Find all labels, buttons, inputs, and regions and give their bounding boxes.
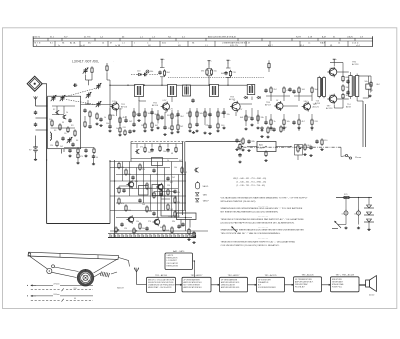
label TR4 (265, 102, 272, 107)
svg-text:(1 - 740 - 751 - 751 - 750 - 0: (1 - 740 - 751 - 751 - 750 - 05) (237, 185, 266, 187)
resistor R38 (245, 114, 247, 121)
resistor R46 (283, 118, 285, 125)
tuning gang C1d (96, 101, 102, 107)
af block left rail (109, 160, 111, 224)
capacitor C86 (120, 223, 123, 227)
resistor R43 (270, 86, 272, 93)
legend valve text (203, 185, 210, 188)
resistor R32 (210, 68, 212, 75)
label osc (80, 156, 98, 159)
wire af wiring (266, 95, 290, 97)
voltage annotations (112, 68, 334, 111)
chassis type label (72, 59, 114, 63)
capacitor C7 (71, 143, 74, 147)
wire stage1 (110, 104, 112, 106)
capacitor C20 (137, 113, 140, 117)
svg-text:270: 270 (248, 117, 251, 119)
capacitor C88 (177, 225, 180, 229)
separator 4 (258, 238, 268, 240)
ground g3 (260, 135, 263, 137)
resistor R21 (144, 110, 146, 117)
capacitor C3 (73, 84, 77, 87)
ground g16 (187, 238, 190, 240)
resistor R94 (171, 226, 173, 233)
svg-text:47k: 47k (136, 114, 139, 116)
resistor R17 (119, 126, 121, 133)
capacitor C38 (250, 117, 253, 121)
svg-text:PUSH PULL: PUSH PULL (332, 287, 342, 289)
resistor R92 (139, 222, 141, 229)
svg-text:DRIJVERTRAP: DRIJVERTRAP (295, 283, 308, 286)
svg-text:R70: R70 (344, 194, 347, 196)
svg-text:47k: 47k (121, 203, 124, 205)
svg-text:10k: 10k (141, 125, 144, 127)
ground g1 (137, 119, 140, 121)
svg-text:33k: 33k (112, 115, 115, 117)
svg-text:A708: A708 (315, 102, 321, 105)
capacitor C84 (138, 199, 141, 203)
wire r14 (106, 63, 108, 64)
capacitor C61 (346, 91, 349, 95)
af sub box 2 (139, 186, 149, 196)
capacitor C100 (150, 148, 153, 152)
title block text row 3 (36, 44, 360, 47)
svg-text:15k: 15k (128, 174, 131, 176)
svg-text:47k: 47k (206, 125, 209, 127)
resistor R36 (217, 122, 219, 129)
ground g22 (76, 162, 79, 164)
svg-text:39k: 39k (121, 167, 124, 169)
svg-text:U.A.N: U.A.N (347, 36, 353, 39)
svg-text:10k: 10k (287, 121, 290, 123)
diode D4 (244, 96, 248, 98)
wire fm out (85, 103, 90, 105)
af mesh wires (110, 161, 183, 163)
svg-text:L.1: L.1 (122, 43, 125, 45)
supply tap 5 (333, 59, 337, 63)
transistor TR3 AF117 (230, 101, 240, 112)
svg-text:68: 68 (171, 153, 173, 155)
oscillator grounds (68, 155, 87, 157)
note 4 (221, 229, 305, 236)
svg-text:330: 330 (270, 128, 273, 130)
svg-text:N1: N1 (62, 43, 65, 45)
wire speaker line (362, 101, 364, 147)
wire top feed 1 (149, 74, 158, 76)
label TR3 (229, 97, 236, 102)
svg-text:120: 120 (124, 228, 127, 230)
resistor R24 (157, 113, 159, 120)
capacitor C28 (191, 99, 194, 103)
label TR2 (152, 103, 159, 108)
svg-text:2k2: 2k2 (180, 126, 183, 128)
capacitor C55 (309, 146, 312, 150)
arrow 1-2 (176, 284, 183, 286)
capacitor C101 (166, 148, 169, 152)
svg-text:v.1: v.1 (308, 43, 311, 45)
svg-text:DEMODULATOR: DEMODULATOR (221, 284, 236, 287)
wire filter bottom (338, 224, 346, 226)
resistor R49 (298, 118, 300, 125)
transistor TR8 AC125 (127, 180, 134, 188)
note 5 (221, 240, 296, 247)
capacitor C63 (366, 80, 371, 93)
af right boundary (182, 142, 184, 216)
dimension line 1 (27, 283, 93, 286)
label tuner parts (49, 109, 78, 148)
svg-text:8k2: 8k2 (181, 116, 184, 118)
capacitor C85 (152, 212, 155, 216)
transistor TR14 sym (135, 149, 139, 154)
wire top feed 3 (226, 76, 231, 78)
svg-text:ETAGE FINAL: ETAGE FINAL (332, 283, 344, 286)
capacitor C80 (131, 176, 134, 180)
capacitor C34 (222, 111, 225, 115)
svg-text:5k6: 5k6 (240, 140, 243, 142)
svg-text:2k2: 2k2 (148, 152, 151, 154)
capacitor C93 (181, 223, 184, 227)
svg-text:+: + (164, 59, 165, 61)
svg-text:(1 - 540 - 451 - 751 - 4961 -: (1 - 540 - 451 - 751 - 4961 - 05) (237, 182, 267, 184)
if transformer S36 (247, 85, 255, 95)
svg-text:4k7: 4k7 (179, 160, 182, 162)
transistor TR7 AC128 (327, 94, 336, 105)
driver transformer T13 (318, 76, 326, 98)
svg-text:330: 330 (156, 217, 159, 219)
svg-text:MENGTRAP - OSCILLATOR: MENGTRAP - OSCILLATOR (148, 286, 172, 289)
label speaker (369, 295, 374, 297)
capacitor C43 (264, 89, 267, 93)
wire diamond to tuner box (42, 84, 46, 97)
capacitor C6 (61, 137, 64, 141)
resistor R62 (342, 93, 344, 100)
supply tap 2 (161, 59, 165, 63)
svg-text:68k: 68k (161, 117, 164, 119)
tone box 2 (177, 213, 197, 220)
resistor R4 (56, 140, 58, 147)
svg-text:1k: 1k (167, 160, 169, 162)
resistor R91 (174, 210, 176, 217)
svg-text:R3: R3 (71, 125, 73, 127)
capacitor C82 (166, 177, 169, 181)
capacitor C14 (158, 71, 161, 75)
svg-text:8k2: 8k2 (308, 145, 311, 147)
resistor R87 (118, 197, 120, 204)
capacitor C70 (342, 198, 349, 216)
svg-text:Lv 44: Lv 44 (80, 45, 85, 47)
svg-text:AA1 - OA70: AA1 - OA70 (173, 250, 185, 253)
resistor R81 (125, 168, 127, 175)
title block text row 2 (35, 42, 360, 45)
svg-text:220: 220 (177, 202, 180, 204)
resistor R26 (171, 124, 173, 131)
svg-text:100: 100 (128, 210, 131, 212)
ground g23 (92, 163, 95, 165)
svg-text:4k7: 4k7 (302, 121, 305, 123)
svg-text:2k2: 2k2 (274, 89, 277, 91)
switch bank contacts (109, 234, 111, 238)
svg-text:N.P.L.TN: N.P.L.TN (230, 45, 238, 47)
resistor R85 (174, 196, 176, 203)
svg-text:6k8: 6k8 (240, 117, 243, 119)
block TR1 mixer (147, 274, 176, 292)
resistor R102 (193, 231, 195, 238)
detector box AA119 (247, 142, 291, 152)
svg-text:41.776: 41.776 (84, 37, 91, 39)
svg-text:AMPLIFICATORE M.F.: AMPLIFICATORE M.F. (221, 286, 240, 289)
ground g14 (357, 227, 360, 229)
resistor R48 (311, 86, 313, 93)
label Phono (355, 157, 362, 159)
tuner enclosure (48, 96, 81, 149)
svg-text:100: 100 (342, 214, 345, 216)
af sub box 1 (152, 158, 163, 166)
svg-text:0k8: 0k8 (167, 72, 170, 74)
resistor R56 (321, 138, 323, 145)
svg-text:39k: 39k (221, 113, 224, 115)
resistor R83 (146, 182, 148, 189)
separator 3 (258, 226, 268, 228)
detector box AA1 OA70 (165, 250, 193, 270)
resistor R90 (167, 203, 169, 210)
block TR3 if1 (182, 274, 211, 292)
arrow 4-5 (285, 284, 294, 286)
svg-text:MISCH U. OSCILLATORSTUFE: MISCH U. OSCILLATORSTUFE (148, 278, 175, 281)
dimension line 3 (27, 294, 93, 297)
svg-text:N A.N: N A.N (320, 42, 326, 45)
label T13 (315, 101, 321, 106)
resistor R44 (283, 86, 285, 93)
svg-text:5k6: 5k6 (155, 114, 158, 116)
svg-text:AF117: AF117 (265, 104, 272, 107)
wire am conv (251, 97, 253, 101)
svg-text:14: 14 (102, 43, 104, 45)
svg-text:- - - - - - - -: - - - - - - - - (258, 238, 268, 240)
svg-text:VALVL: VALVL (203, 185, 210, 188)
ground g2 (192, 131, 195, 133)
wire top feed 2 (207, 67, 212, 69)
resistor R50 (311, 118, 313, 125)
svg-text:15k: 15k (136, 221, 139, 223)
svg-text:1k: 1k (274, 121, 276, 123)
block antenna (134, 267, 139, 284)
resistor R20 (133, 110, 135, 117)
resistor R12 (163, 69, 165, 76)
svg-text:PREAMPLIF.: PREAMPLIF. (258, 281, 269, 284)
svg-text:33k: 33k (149, 188, 152, 190)
svg-text:AF116: AF116 (152, 104, 159, 107)
ground g7 (247, 149, 250, 151)
resistor R84 (160, 189, 162, 196)
wire t1 to tr2 (138, 97, 140, 102)
svg-text:10k: 10k (163, 151, 166, 153)
svg-text:1: 1 (134, 43, 135, 45)
idler pulley (47, 268, 52, 273)
svg-text:(20.000 Ω/V) PAR RAPPORT A LA: (20.000 Ω/V) PAR RAPPORT A LA LIGNE NEGA… (221, 221, 295, 224)
transistor TR2 AF116 (161, 102, 170, 112)
svg-text:220: 220 (167, 185, 170, 187)
band switch feed stubs (61, 149, 63, 154)
resistor R27 (177, 123, 179, 130)
svg-text:247mm: 247mm (53, 294, 60, 296)
resistor R33 (229, 70, 231, 77)
volume control R54 (295, 144, 303, 160)
svg-text:TR7 + TR8 - AC128: TR7 + TR8 - AC128 (336, 274, 355, 277)
capacitor C44 (288, 88, 291, 92)
capacitor C15 (92, 155, 95, 163)
capacitor C87 (145, 227, 148, 231)
resistor R2 (59, 123, 61, 130)
legend diode text (203, 194, 208, 197)
af sub box 3 (152, 185, 163, 196)
capacitor C60 (346, 80, 349, 84)
wire aerial to tuner (36, 105, 47, 107)
capacitor C47 (292, 90, 295, 94)
svg-text:6k8: 6k8 (221, 73, 224, 75)
tuning gang C1b (60, 95, 66, 101)
svg-text:4Ω 02: 4Ω 02 (369, 295, 374, 297)
ground g4 (266, 136, 269, 138)
tuning drum (77, 269, 94, 286)
svg-text:AMPLIFICATORE M.F.: AMPLIFICATORE M.F. (184, 286, 203, 289)
svg-text:100: 100 (221, 125, 224, 127)
capacitor C89 (238, 153, 241, 157)
diode D1 OA79 (261, 126, 264, 131)
svg-text:2k2: 2k2 (129, 121, 132, 123)
resistor R25 (171, 112, 173, 119)
svg-text:5k6: 5k6 (315, 89, 318, 91)
resistor R31 (206, 68, 208, 75)
ground g19 (238, 161, 241, 163)
resistor R16 (119, 116, 121, 123)
svg-text:AT08: AT08 (346, 106, 352, 109)
wire bottom bus (47, 223, 110, 225)
title block frame (33, 36, 372, 46)
resistor R35 (217, 110, 219, 117)
transistor TR10 AC125 (127, 215, 134, 223)
svg-text:220: 220 (168, 128, 171, 130)
legend diode symbol (196, 193, 199, 196)
capacitor C31 (224, 71, 227, 75)
svg-text:153: 153 (74, 288, 77, 290)
agc dashed long (168, 77, 264, 79)
wire filter rail (336, 197, 372, 199)
svg-text:S4: S4 (76, 140, 78, 142)
ground g21 (99, 124, 102, 126)
wire battery tap (36, 117, 47, 119)
junction dots (109, 85, 110, 86)
dial pointer rail (28, 252, 119, 259)
dimension line 4 (31, 298, 93, 301)
trimmer C11 (83, 68, 89, 74)
svg-text:+: + (211, 61, 212, 63)
svg-text:220: 220 (123, 127, 126, 129)
svg-text:A1 JA: A1 JA (70, 42, 76, 45)
component value labels (104, 71, 380, 148)
svg-text:S2: S2 (53, 109, 55, 111)
resistor R15 (109, 113, 111, 120)
dial cord upper (30, 257, 130, 270)
svg-text:C4: C4 (49, 119, 51, 121)
svg-text:AMPLIFICATEUR B.F.: AMPLIFICATEUR B.F. (295, 280, 314, 283)
note 3 (221, 218, 305, 225)
svg-text:39k: 39k (172, 221, 175, 223)
ferrite aerial diamond (27, 76, 42, 91)
svg-text:- - - - - - - -: - - - - - - - - (258, 205, 268, 207)
resistor R13 (77, 152, 79, 161)
resistor R86 (181, 166, 183, 173)
svg-text:v1.4: v1.4 (356, 45, 360, 47)
svg-text:TEN OPZICHTE VAN DE “–” VAN DE: TEN OPZICHTE VAN DE “–” VAN DE VOEDINGSS… (221, 232, 281, 235)
capacitor C33 (208, 113, 211, 117)
svg-text:14: 14 (338, 43, 340, 45)
wire output wiring (333, 63, 335, 67)
resistor R110 (167, 188, 169, 195)
svg-text:M.v: M.v (88, 43, 91, 45)
svg-text:100: 100 (354, 214, 357, 216)
svg-text:ZF VERSTAERKER: ZF VERSTAERKER (221, 278, 238, 281)
block TR6 driver (294, 274, 322, 292)
capacitor C56 (315, 140, 318, 144)
transistor TR1 AF116 (110, 102, 119, 112)
resistor R109 (153, 191, 155, 198)
pot R103 bass (115, 226, 119, 233)
ground g15 (367, 228, 370, 230)
resistor R23 (151, 121, 153, 128)
af gap wires (119, 185, 128, 187)
resistor R55 (304, 143, 306, 150)
block TR5 af (257, 274, 285, 292)
resistor R82 (139, 163, 141, 170)
resistor R42 (268, 60, 270, 72)
resistor R28 (189, 110, 191, 117)
svg-text:L NNERKNAPUNSIJON B.N. M: L NNERKNAPUNSIJON B.N. M (222, 42, 250, 45)
capacitor C26 (163, 126, 166, 130)
capacitor C13 (143, 70, 149, 76)
legend diode2 symbol (196, 199, 199, 202)
svg-text:56k: 56k (365, 81, 368, 83)
phono dash-dot line (237, 146, 341, 148)
title block text row 1 (35, 36, 364, 39)
svg-text:220: 220 (315, 121, 318, 123)
wire AA1 to mixer (193, 261, 195, 277)
svg-text:330: 330 (346, 87, 349, 89)
ground g9 (303, 153, 306, 155)
supply tap 3 (208, 61, 212, 64)
wire top rail (110, 84, 135, 86)
dimension line 2 (31, 288, 93, 291)
svg-text:10k: 10k (174, 167, 177, 169)
svg-text:68k: 68k (149, 211, 152, 213)
resistor R34 (204, 110, 206, 117)
resistor R9 (96, 112, 98, 119)
volume pot R95 (239, 143, 243, 150)
aerial (34, 96, 38, 106)
svg-text:4k7: 4k7 (155, 125, 158, 127)
if transformer S24 (168, 85, 177, 97)
ground g20 (95, 123, 98, 125)
resistor R93 (163, 224, 165, 231)
block TR7 output (331, 274, 360, 292)
resistor R40 (267, 126, 269, 133)
ground g11 (320, 148, 323, 150)
svg-text:REVELATION: REVELATION (167, 264, 179, 267)
svg-text:AMPLIFICATEUR M.F.: AMPLIFICATEUR M.F. (221, 281, 240, 284)
supply tap 4 (227, 60, 231, 64)
capacitor C45 (264, 121, 267, 125)
svg-text:Phono: Phono (355, 157, 362, 159)
label SA109 (117, 287, 125, 290)
